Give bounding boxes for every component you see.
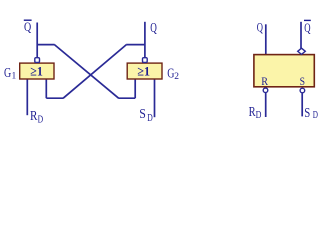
svg-text:S: S [304, 106, 310, 121]
svg-text:D: D [147, 113, 153, 124]
svg-text:Q: Q [24, 19, 32, 34]
svg-text:D: D [38, 114, 44, 125]
svg-text:Q: Q [304, 20, 311, 35]
svg-text:R: R [261, 74, 268, 88]
svg-text:≥1: ≥1 [137, 64, 150, 79]
svg-text:≥1: ≥1 [30, 64, 43, 79]
svg-text:S: S [300, 74, 305, 88]
svg-text:G: G [4, 66, 11, 81]
svg-text:D: D [256, 110, 262, 121]
svg-text:D: D [313, 110, 318, 121]
svg-text:Q: Q [257, 19, 264, 34]
svg-text:1: 1 [12, 71, 17, 81]
svg-text:2: 2 [174, 72, 179, 82]
svg-text:S: S [139, 107, 146, 122]
svg-text:Q: Q [150, 21, 157, 36]
